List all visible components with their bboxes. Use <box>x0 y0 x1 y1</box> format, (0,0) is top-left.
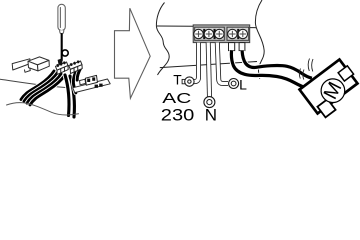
screwdriver SD1 shaft <box>61 34 63 61</box>
motor end box (right) <box>338 66 353 81</box>
wire loop on shaft <box>62 50 68 56</box>
plate B1 (flat strip upper-left) <box>12 59 30 73</box>
swoosh line <box>7 103 79 115</box>
clamp marks <box>203 29 239 39</box>
terminal block L1 (left half, perspective) <box>56 61 69 74</box>
screw SC1 <box>194 29 203 38</box>
ring terminal RT-N <box>204 97 215 108</box>
panel right torn edge <box>255 0 264 79</box>
svg-text:T: T <box>173 73 182 88</box>
motor circle <box>316 74 349 107</box>
ring terminal RT-T <box>182 77 194 86</box>
TB1 left sub-block <box>195 27 225 40</box>
motor body <box>300 59 358 113</box>
wire pair W-mid (2 black wires down the middle) <box>65 75 74 117</box>
wire BW-B (black wire from stub2, curls over A, upper path to motor) <box>242 51 312 78</box>
wire L (down, bend right to ring) <box>217 43 228 84</box>
terminal block TB1 outer plate <box>193 25 250 43</box>
screwdriver SD1 ferrule <box>60 30 64 34</box>
box B2 (3D connector box) <box>28 57 49 71</box>
wire T (screw1 down, bend left to ring) <box>194 43 199 82</box>
wire pair W-right (down from block end, under plate) <box>73 68 81 93</box>
screw SC5 <box>238 29 247 38</box>
wire N (straight down) <box>208 43 209 97</box>
screw SC2 <box>204 29 213 38</box>
plate P1 (flat board lower right) <box>73 79 111 93</box>
motor M1 <box>300 58 360 120</box>
connector C2 (2-pos terminal on plate) <box>85 75 97 85</box>
pins (black squares on plate) <box>95 84 103 88</box>
screw tip blob <box>58 59 63 65</box>
screw SC4 <box>228 29 237 38</box>
panel bottom edge <box>160 62 257 68</box>
flex marks <box>299 59 313 80</box>
TB1 right sub-block <box>227 27 249 40</box>
stub SB1 <box>229 43 235 51</box>
screw SC3 <box>215 29 224 38</box>
svg-text:230: 230 <box>161 106 195 125</box>
screwdriver SD1 handle <box>58 4 65 30</box>
svg-text:L: L <box>239 77 247 93</box>
panel top edge right part <box>250 27 257 29</box>
panel top edge <box>157 25 193 27</box>
rail line under assembly <box>0 79 73 88</box>
ring terminal RT-L <box>229 79 239 89</box>
stub SB2 <box>239 43 245 51</box>
wire BW-A (black wire from stub1, lower path to motor) <box>231 51 308 89</box>
panel left torn edge <box>156 3 169 76</box>
svg-text:AC: AC <box>162 90 191 107</box>
wire bundle W-left (4 black wires sweeping down-left) <box>21 71 65 105</box>
motor foot (bottom) <box>317 99 335 117</box>
arrow (big outline block arrow) <box>115 8 151 98</box>
terminal block L2 (right half, perspective) <box>69 60 82 73</box>
svg-text:N: N <box>205 106 217 125</box>
